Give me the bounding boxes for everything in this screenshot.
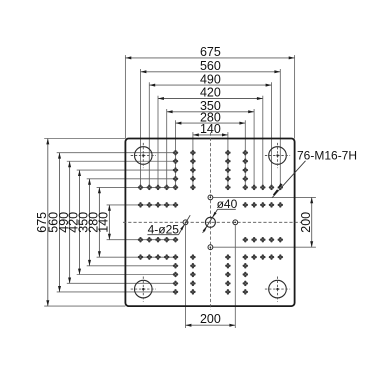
top dimension 560: [141, 59, 281, 73]
extension line row +210mm: [77, 274, 176, 276]
extension line row +245mm: [67, 282, 176, 284]
extension line column -210mm: [157, 96, 159, 188]
M16 holes bottom-left column 70mm: [190, 254, 196, 294]
extension line row -175mm: [87, 178, 176, 180]
M16 holes bottom-left row 70mm: [138, 237, 179, 243]
bottom-right corner hole: [265, 277, 290, 302]
M16 holes top-right column 70mm: [225, 150, 231, 190]
extension line row +140mm: [97, 256, 176, 258]
o25 hole left: [183, 220, 188, 225]
svg-text:560: 560: [200, 59, 221, 73]
left dimension 140: [97, 205, 111, 240]
extension line column +245mm: [271, 82, 273, 187]
left dimension 280: [87, 187, 101, 257]
extension line column -140mm: [175, 120, 177, 187]
label 4-o25 with leader: [147, 215, 190, 236]
extension line plate top edge (675 left): [44, 138, 125, 140]
top dimension 140: [193, 122, 228, 136]
left dimension 675: [35, 139, 49, 307]
left dimension 560: [47, 153, 61, 292]
label o40 with leader: [203, 197, 238, 233]
left dimension 420: [67, 170, 81, 274]
extension line column +140mm: [244, 120, 246, 187]
M16 holes bottom-right column 70mm: [225, 254, 231, 294]
extension line right o25 hole (200 bottom): [234, 225, 236, 328]
bottom dimension 200: [186, 312, 236, 327]
svg-text:140: 140: [97, 212, 111, 233]
extension line column -70mm: [192, 132, 194, 187]
extension line column -175mm: [166, 109, 168, 187]
vertical centerline: [209, 133, 211, 310]
top dimension 350: [167, 99, 254, 113]
top dimension 420: [158, 86, 263, 100]
right dimension 200: [299, 197, 313, 247]
top-right corner hole: [265, 143, 290, 168]
extension line row +70mm: [107, 239, 176, 241]
M16 holes top-right row 70mm: [243, 202, 283, 208]
top dimension 490: [149, 72, 271, 86]
extension line column -280mm: [140, 69, 142, 187]
extension line column +70mm: [227, 132, 229, 187]
center hole o40: [205, 217, 215, 227]
extension line row -140mm: [97, 186, 176, 188]
svg-text:420: 420: [200, 86, 221, 100]
M16 holes bottom-right row 70mm: [243, 237, 283, 243]
M16 holes top-left column 70mm: [190, 150, 196, 190]
M16 holes bottom-left row 140mm: [138, 254, 170, 260]
extension line row -210mm: [77, 169, 176, 171]
M16 holes top-left row 70mm: [138, 202, 179, 208]
extension line column +280mm: [279, 69, 281, 187]
extension line plate bottom edge (675 left): [44, 305, 125, 307]
bottom-left corner hole: [131, 277, 156, 302]
M16 holes top-left row 140mm: [138, 185, 170, 191]
M16 holes top-right column 140mm: [243, 150, 249, 190]
o25 hole right: [233, 220, 238, 225]
extension line top o25 hole (200 right): [213, 196, 316, 198]
M16 holes bottom-right column 140mm: [243, 254, 249, 294]
o25 hole bottom: [208, 245, 213, 250]
extension line left o25 hole (200 bottom): [185, 225, 187, 328]
extension line bottom o25 hole (200 right): [213, 246, 316, 248]
horizontal centerline: [123, 221, 302, 223]
extension line column -245mm: [148, 82, 150, 187]
left dimension 350: [77, 179, 91, 266]
svg-text:490: 490: [200, 72, 221, 86]
extension line column +210mm: [262, 96, 264, 188]
extension line row +175mm: [87, 265, 176, 267]
svg-text:200: 200: [299, 212, 313, 233]
M16 holes bottom-left column 140mm: [173, 254, 179, 294]
extension line row -245mm: [67, 160, 176, 162]
label 76-M16-7H with leader: [272, 148, 357, 198]
extension line row -70mm: [107, 204, 176, 206]
o25 hole top: [208, 195, 213, 200]
svg-text:140: 140: [200, 122, 221, 136]
platen plate outline: [125, 139, 294, 307]
top dimension 675: [125, 45, 294, 59]
extension line row -280mm: [57, 152, 176, 154]
extension line column +175mm: [253, 109, 255, 187]
M16 holes bottom-right row 140mm: [251, 254, 283, 260]
extension line row +280mm: [57, 291, 176, 293]
top-left corner hole: [131, 143, 156, 168]
top dimension 280: [176, 110, 246, 124]
svg-text:200: 200: [200, 312, 221, 326]
svg-text:675: 675: [200, 45, 221, 59]
M16 holes top-left column 140mm: [173, 150, 179, 190]
svg-text:76-M16-7H: 76-M16-7H: [297, 148, 357, 162]
left dimension 490: [57, 161, 71, 283]
extension line plate right edge (675 top): [294, 55, 296, 138]
M16 holes top-right row 140mm: [251, 185, 283, 191]
extension line plate left edge (675 top): [124, 55, 126, 138]
